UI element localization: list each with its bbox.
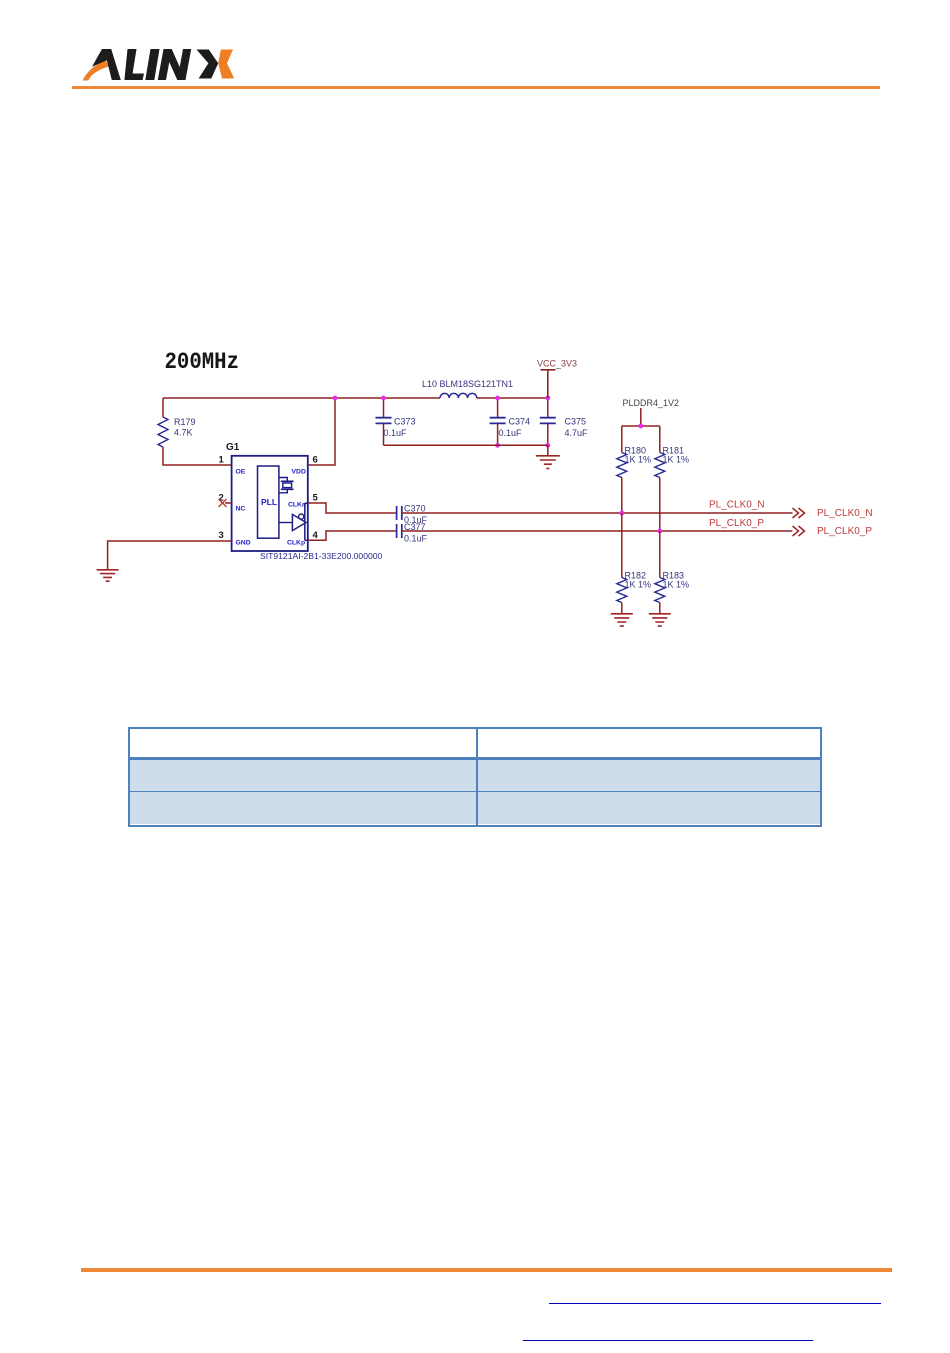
svg-text:1K 1%: 1K 1%: [663, 455, 690, 465]
pin 3 wire to ground: [108, 541, 232, 570]
svg-text:4.7K: 4.7K: [174, 428, 193, 438]
pin name NC: [236, 506, 246, 513]
label R183 1K 1%: [663, 571, 690, 590]
pin 2 stub with no-connect X: [219, 499, 232, 507]
svg-text:C375: C375: [565, 417, 587, 427]
off-page connector PL_CLK0_N: [793, 508, 805, 518]
svg-text:CLKn: CLKn: [288, 502, 306, 509]
resistor R180: [617, 426, 627, 513]
capacitor C374 wires: [497, 398, 499, 445]
label L10 BLM18SG121TN1: [422, 379, 513, 389]
link underline 1: [549, 1303, 881, 1305]
svg-text:VDD: VDD: [292, 469, 306, 476]
resistor R182: [617, 513, 627, 614]
svg-text:1K 1%: 1K 1%: [625, 455, 652, 465]
power VCC_3V3 symbol: [541, 370, 556, 398]
net label PL_CLK0_N: [709, 500, 765, 511]
svg-text:PL_CLK0_N: PL_CLK0_N: [817, 508, 873, 519]
table: [128, 727, 822, 827]
label R181 1K 1%: [663, 446, 690, 465]
svg-text:PLDDR4_1V2: PLDDR4_1V2: [623, 398, 680, 408]
junction at pin6 riser / top rail: [333, 396, 338, 401]
label R180 1K 1%: [625, 446, 652, 465]
pin name VDD: [292, 469, 306, 476]
link underline 2: [523, 1340, 813, 1342]
junction C374 top rail: [495, 396, 500, 401]
wire R179 bottom to pin1: [163, 447, 232, 465]
label C374 0.1uF: [499, 417, 531, 439]
capacitor C374 plates: [490, 418, 506, 424]
capacitor C375 plates: [540, 418, 556, 424]
svg-text:OE: OE: [236, 469, 246, 476]
top orange rule: [72, 86, 880, 90]
wire pin6 riser: [308, 398, 335, 465]
pin 5 number: [313, 493, 319, 504]
pin 6 number: [313, 455, 318, 466]
svg-text:1: 1: [219, 455, 225, 466]
logo letter X black left half: [197, 50, 219, 79]
wire PLDDR4 stub: [622, 408, 660, 426]
PLL sub-block: [258, 466, 279, 538]
svg-text:1K 1%: 1K 1%: [663, 580, 690, 590]
capacitor C377 series plates: [397, 524, 402, 538]
wire net PL_CLK0_N: [402, 512, 793, 514]
capacitor C373 plates: [376, 418, 392, 424]
junction C373 top rail: [381, 396, 386, 401]
pin name CLKn: [288, 502, 306, 509]
label SIT9121AI-2B1-33E200.000000: [260, 551, 383, 561]
svg-text:0.1uF: 0.1uF: [499, 428, 523, 438]
pin name GND: [236, 540, 251, 547]
svg-text:1K 1%: 1K 1%: [625, 580, 652, 590]
off-page connector PL_CLK0_P: [793, 526, 805, 536]
junction C375 top rail: [545, 396, 550, 401]
ground below C375: [536, 445, 560, 468]
label C370 0.1uF: [404, 504, 428, 526]
ground below R182: [611, 614, 633, 626]
wire net PL_CLK0_P: [402, 530, 793, 532]
svg-text:VCC_3V3: VCC_3V3: [537, 359, 577, 369]
IC G1 body: [232, 456, 308, 551]
pin 4 number: [313, 530, 319, 541]
svg-text:5: 5: [313, 493, 319, 504]
svg-text:PLL: PLL: [261, 497, 277, 507]
svg-text:0.1uF: 0.1uF: [404, 534, 428, 544]
junction PLDDR4 tee: [638, 424, 643, 429]
svg-text:G1: G1: [226, 442, 240, 453]
svg-text:C373: C373: [394, 417, 416, 427]
label R179 4.7K: [174, 417, 196, 438]
external label PL_CLK0_P: [817, 526, 872, 537]
logo letter A: [92, 49, 121, 80]
logo letter N: [158, 49, 172, 80]
capacitor C370 series plates: [397, 506, 402, 520]
svg-text:PL_CLK0_N: PL_CLK0_N: [709, 500, 765, 511]
svg-text:C374: C374: [509, 417, 531, 427]
logo letter I: [145, 49, 159, 80]
capacitor C375 wires: [547, 398, 549, 445]
title 200MHz: [165, 349, 240, 376]
logo letter L: [124, 49, 144, 80]
bottom orange rule: [81, 1268, 892, 1272]
svg-text:PL_CLK0_P: PL_CLK0_P: [709, 518, 764, 529]
pin 1 number: [219, 455, 225, 466]
svg-text:4.7uF: 4.7uF: [565, 428, 589, 438]
wire top rail right segment: [477, 397, 548, 399]
pin name OE: [236, 469, 246, 476]
resistor R181: [655, 426, 665, 531]
junction R181 on net P: [657, 529, 662, 534]
label C377 0.1uF: [404, 522, 428, 544]
svg-text:R179: R179: [174, 417, 196, 427]
svg-text:C370: C370: [404, 504, 426, 514]
external label PL_CLK0_N: [817, 508, 873, 519]
label C373 0.1uF: [384, 417, 416, 439]
svg-text:4: 4: [313, 530, 319, 541]
svg-text:GND: GND: [236, 540, 251, 547]
wire pin 5 to C370: [308, 503, 397, 513]
label G1: [226, 442, 240, 453]
svg-text:PL_CLK0_P: PL_CLK0_P: [817, 526, 872, 537]
svg-text:6: 6: [313, 455, 318, 466]
resistor R179 vertical wire top: [162, 398, 164, 417]
ground below R183: [649, 614, 671, 626]
logo letter X orange right half: [218, 50, 234, 79]
label C375 4.7uF: [565, 417, 589, 439]
wire top rail left segment: [163, 397, 440, 399]
crystal symbol: [279, 478, 294, 493]
capacitor C373 wires: [383, 398, 385, 445]
pin 3 number: [219, 530, 224, 541]
svg-text:CLKp: CLKp: [287, 540, 305, 547]
inductor L10 coil: [440, 393, 477, 398]
logo orange swoosh under A: [83, 61, 110, 81]
net label PL_CLK0_P: [709, 518, 764, 529]
label R182 1K 1%: [625, 571, 652, 590]
svg-text:0.1uF: 0.1uF: [384, 428, 408, 438]
svg-text:SIT9121AI-2B1-33E200.000000: SIT9121AI-2B1-33E200.000000: [260, 551, 383, 561]
pin 2 number: [219, 493, 224, 504]
wire bottom rail: [384, 444, 548, 446]
buffer output bus: [305, 503, 308, 540]
junction C374 bottom rail: [495, 443, 500, 448]
svg-text:3: 3: [219, 530, 224, 541]
svg-text:L10 BLM18SG121TN1: L10 BLM18SG121TN1: [422, 379, 513, 389]
pin name CLKp: [287, 540, 305, 547]
junction R180 on net N: [619, 511, 624, 516]
svg-text:NC: NC: [236, 506, 246, 513]
svg-text:200MHz: 200MHz: [165, 349, 240, 376]
resistor R179 zigzag: [158, 417, 168, 447]
ALINX logo: [80, 44, 238, 84]
junction C375 bottom rail: [545, 443, 550, 448]
label VCC_3V3: [537, 359, 577, 369]
label PLDDR4_1V2: [623, 398, 680, 408]
resistor R183: [655, 531, 665, 614]
wire pin 4 to C377: [308, 531, 397, 540]
ground at pin 3: [97, 570, 119, 581]
output buffer triangle: [279, 514, 306, 531]
